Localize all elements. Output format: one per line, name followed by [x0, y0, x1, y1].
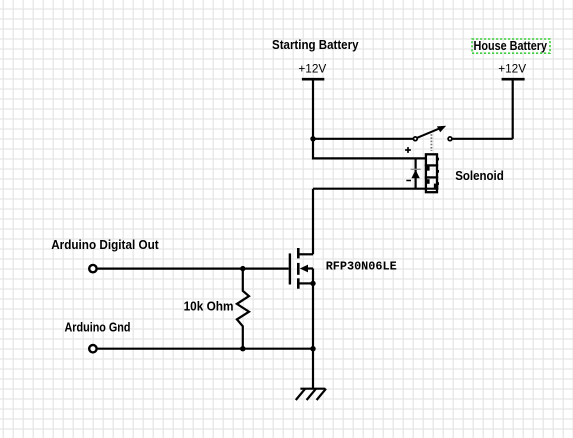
svg-text:House Battery: House Battery	[474, 39, 548, 53]
wire Arduino Gnd to source node	[98, 348, 314, 350]
svg-text:+12V: +12V	[298, 61, 326, 75]
ground symbol	[300, 388, 325, 390]
wire source to ground wire	[312, 283, 314, 348]
mosfet Q1 gate bar	[289, 253, 291, 284]
mosfet Q1 drain lead	[298, 253, 313, 255]
terminal circle Arduino Gnd	[89, 345, 96, 352]
svg-text:Starting Battery: Starting Battery	[272, 38, 359, 52]
polarity plus sign	[405, 149, 411, 151]
flyback diode D1	[415, 158, 417, 188]
selection box around House Battery	[472, 39, 550, 53]
switch contact circle B	[448, 137, 452, 141]
wire to switch pole	[313, 138, 413, 140]
mosfet Q1 source lead	[298, 282, 313, 284]
junction dot at ground node	[310, 346, 315, 351]
wire Arduino Digital Out to gate	[98, 268, 289, 270]
wire house battery stem	[512, 79, 514, 139]
svg-text:10k Ohm: 10k Ohm	[184, 299, 234, 313]
power bar starting battery	[302, 78, 324, 81]
solenoid coil body	[426, 154, 437, 192]
wire to solenoid plus terminal	[313, 139, 426, 159]
switch contact circle A	[413, 137, 417, 141]
junction dot at source	[310, 281, 315, 286]
wire down to ground symbol	[312, 349, 314, 389]
junction dot at resistor top	[240, 266, 245, 271]
svg-text:Solenoid: Solenoid	[455, 169, 504, 183]
junction dot at resistor bottom	[240, 346, 245, 351]
wire to solenoid minus terminal	[313, 188, 438, 190]
svg-text:Arduino Gnd: Arduino Gnd	[65, 320, 131, 334]
polarity minus sign	[406, 180, 411, 182]
power bar house battery	[502, 78, 525, 81]
wire starting battery stem	[312, 79, 314, 139]
svg-text:RFP30N06LE: RFP30N06LE	[326, 260, 397, 274]
resistor R1 10k	[237, 269, 249, 349]
wire from switch to house battery	[452, 138, 513, 140]
mosfet Q1 channel segments	[297, 248, 300, 258]
mosfet Q1 body arrow	[300, 265, 308, 273]
wire solenoid to mosfet drain	[312, 189, 314, 255]
switch blade with arrow	[417, 128, 439, 137]
junction dot at starting battery node	[310, 136, 315, 141]
svg-text:Arduino Digital Out: Arduino Digital Out	[51, 238, 159, 252]
mechanical link dotted line	[430, 134, 432, 151]
terminal circle Arduino Digital Out	[89, 265, 96, 272]
svg-text:+12V: +12V	[498, 61, 526, 75]
